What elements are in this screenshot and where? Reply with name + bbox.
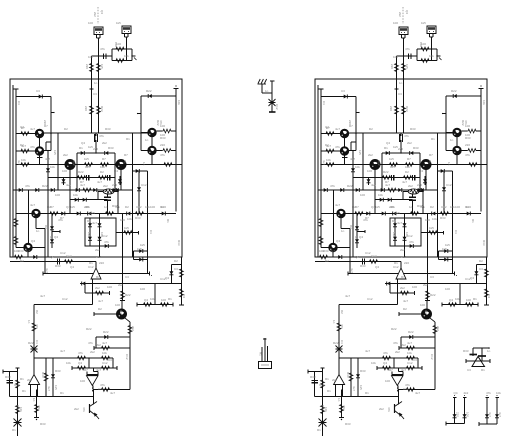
svg-text:220: 220 — [93, 147, 98, 151]
svg-text:100: 100 — [107, 285, 112, 289]
svg-text:4u7: 4u7 — [17, 160, 21, 165]
svg-text:Q4: Q4 — [144, 298, 148, 302]
svg-text:C12: C12 — [66, 254, 72, 258]
svg-text:R7: R7 — [80, 180, 84, 184]
svg-text:Q4: Q4 — [165, 276, 169, 280]
svg-text:100: 100 — [55, 193, 60, 197]
svg-text:4u7: 4u7 — [30, 203, 35, 207]
svg-text:Q4: Q4 — [66, 205, 70, 209]
svg-text:2k2: 2k2 — [102, 141, 107, 145]
svg-text:4u7: 4u7 — [45, 157, 50, 161]
svg-text:D2: D2 — [87, 219, 91, 223]
svg-text:1k5: 1k5 — [140, 243, 145, 247]
svg-text:C12: C12 — [72, 160, 76, 166]
svg-text:C12: C12 — [62, 297, 68, 301]
svg-text:1n: 1n — [27, 320, 31, 324]
svg-text:4u7: 4u7 — [97, 180, 102, 184]
svg-text:R33: R33 — [177, 240, 181, 246]
svg-text:2k2: 2k2 — [63, 153, 68, 157]
svg-text:10k: 10k — [73, 193, 78, 197]
svg-text:47k: 47k — [78, 351, 83, 355]
svg-text:100: 100 — [88, 55, 93, 59]
svg-text:47k: 47k — [160, 153, 165, 157]
svg-text:47k: 47k — [104, 240, 109, 244]
svg-text:4u7: 4u7 — [96, 368, 101, 372]
svg-text:R1: R1 — [166, 219, 170, 223]
svg-text:C3: C3 — [93, 92, 97, 96]
svg-text:C3: C3 — [174, 267, 178, 271]
svg-text:Q4: Q4 — [81, 141, 85, 145]
svg-text:C12: C12 — [275, 104, 279, 110]
svg-text:2k2: 2k2 — [118, 283, 123, 287]
svg-text:R22: R22 — [86, 327, 92, 331]
svg-text:C12: C12 — [136, 205, 142, 209]
svg-text:10k: 10k — [150, 297, 155, 301]
svg-text:1n: 1n — [142, 162, 146, 166]
svg-text:R33: R33 — [463, 349, 469, 353]
svg-text:10k: 10k — [102, 351, 107, 355]
svg-text:R1: R1 — [160, 205, 164, 209]
svg-text:Q4: Q4 — [100, 10, 104, 14]
svg-text:100R33: 100R33 — [160, 133, 166, 140]
svg-text:R33: R33 — [40, 422, 46, 426]
svg-text:Q4: Q4 — [78, 361, 82, 365]
svg-text:C12: C12 — [98, 387, 104, 391]
svg-text:R22: R22 — [42, 184, 48, 188]
svg-text:47k: 47k — [30, 145, 35, 149]
svg-text:220: 220 — [84, 205, 89, 209]
svg-text:C12: C12 — [102, 361, 108, 365]
svg-text:10k: 10k — [177, 100, 181, 105]
svg-text:47k: 47k — [486, 391, 491, 395]
svg-text:R7: R7 — [102, 157, 106, 161]
svg-text:1n: 1n — [32, 398, 36, 402]
svg-text:4u7: 4u7 — [498, 412, 502, 417]
svg-text:R22: R22 — [100, 106, 104, 112]
svg-text:R22: R22 — [28, 341, 34, 345]
svg-text:R33: R33 — [108, 146, 114, 150]
svg-text:4u7: 4u7 — [66, 183, 71, 187]
svg-text:Q4: Q4 — [20, 125, 24, 129]
svg-text:R1: R1 — [12, 428, 16, 432]
svg-text:1k5: 1k5 — [100, 64, 104, 69]
svg-text:47k: 47k — [58, 218, 63, 222]
svg-text:R7: R7 — [84, 368, 88, 372]
svg-text:Q4: Q4 — [70, 265, 74, 269]
svg-text:R33: R33 — [55, 264, 61, 268]
svg-text:10k: 10k — [66, 361, 71, 365]
svg-text:220: 220 — [43, 120, 47, 125]
svg-text:2k2: 2k2 — [131, 326, 135, 331]
svg-text:Q4: Q4 — [114, 169, 118, 173]
svg-text:4u7: 4u7 — [30, 127, 35, 131]
svg-text:R33: R33 — [5, 375, 11, 379]
svg-text:D2: D2 — [20, 143, 24, 147]
svg-text:Q4: Q4 — [182, 294, 186, 298]
svg-text:C12: C12 — [16, 405, 20, 411]
svg-text:10k: 10k — [124, 54, 129, 58]
svg-text:47k: 47k — [35, 324, 39, 329]
svg-text:100: 100 — [150, 205, 155, 209]
svg-text:220: 220 — [456, 412, 460, 417]
svg-text:1n: 1n — [123, 160, 127, 164]
svg-text:220: 220 — [112, 183, 117, 187]
svg-text:Q4: Q4 — [54, 235, 58, 239]
svg-text:10k: 10k — [100, 232, 104, 237]
svg-text:1k5: 1k5 — [116, 21, 121, 25]
svg-text:R1: R1 — [60, 391, 64, 395]
svg-text:100: 100 — [116, 42, 121, 46]
svg-text:1k5: 1k5 — [84, 157, 89, 161]
svg-text:100: 100 — [160, 124, 165, 128]
svg-text:1n: 1n — [36, 229, 40, 233]
svg-text:1n: 1n — [104, 205, 108, 209]
svg-text:1k5: 1k5 — [137, 247, 142, 251]
svg-text:1n: 1n — [94, 81, 98, 85]
svg-text:4u7: 4u7 — [488, 412, 492, 417]
svg-text:Q4: Q4 — [50, 255, 54, 259]
svg-text:10k: 10k — [496, 391, 501, 395]
svg-text:4u7: 4u7 — [25, 249, 30, 253]
svg-text:4u7: 4u7 — [45, 268, 49, 273]
svg-text:1n: 1n — [145, 138, 149, 142]
svg-text:2k2: 2k2 — [464, 391, 469, 395]
svg-text:D2: D2 — [100, 170, 104, 174]
svg-text:220: 220 — [85, 64, 89, 69]
svg-text:2k2: 2k2 — [95, 286, 100, 290]
svg-text:2k2: 2k2 — [93, 12, 97, 17]
svg-text:4u7: 4u7 — [92, 221, 97, 225]
svg-text:R22: R22 — [78, 170, 84, 174]
svg-text:D2: D2 — [125, 205, 129, 209]
svg-text:2k2: 2k2 — [27, 378, 32, 382]
svg-text:2k2: 2k2 — [103, 184, 108, 188]
svg-text:1k5: 1k5 — [54, 385, 58, 390]
svg-text:R1: R1 — [49, 236, 53, 240]
svg-text:220: 220 — [84, 106, 88, 111]
svg-text:D2: D2 — [20, 259, 24, 263]
svg-text:47k: 47k — [88, 341, 93, 345]
svg-text:10k: 10k — [100, 165, 105, 169]
svg-text:D2: D2 — [98, 307, 102, 311]
svg-text:C12: C12 — [141, 183, 147, 187]
svg-text:R33: R33 — [105, 127, 111, 131]
svg-text:C3: C3 — [467, 368, 471, 372]
svg-text:R22: R22 — [146, 89, 152, 93]
svg-text:2k2: 2k2 — [96, 343, 101, 347]
svg-text:4u7: 4u7 — [96, 255, 101, 259]
svg-text:100: 100 — [120, 218, 125, 222]
svg-text:100: 100 — [115, 303, 120, 307]
svg-text:Q4: Q4 — [454, 391, 458, 395]
svg-text:1k5: 1k5 — [53, 150, 57, 155]
svg-text:2k2: 2k2 — [90, 350, 95, 354]
svg-text:4u7: 4u7 — [40, 294, 45, 298]
svg-text:4u7: 4u7 — [98, 299, 103, 303]
svg-text:47k: 47k — [115, 205, 120, 209]
svg-text:C3: C3 — [36, 89, 40, 93]
svg-text:R1: R1 — [168, 297, 172, 301]
svg-text:4u7: 4u7 — [110, 391, 115, 395]
svg-text:1k5: 1k5 — [124, 226, 129, 230]
svg-text:10k: 10k — [50, 165, 55, 169]
svg-text:C12: C12 — [125, 354, 129, 360]
svg-text:R22: R22 — [125, 293, 131, 297]
svg-text:D2: D2 — [174, 259, 178, 263]
svg-text:47k: 47k — [99, 134, 104, 138]
svg-text:4u7: 4u7 — [47, 386, 51, 391]
svg-text:D2: D2 — [47, 205, 51, 209]
svg-text:C3: C3 — [149, 230, 153, 234]
svg-text:2k2: 2k2 — [74, 407, 79, 411]
svg-text:100: 100 — [88, 21, 93, 25]
svg-text:4u7: 4u7 — [60, 349, 65, 353]
svg-text:R1: R1 — [22, 389, 26, 393]
svg-text:220: 220 — [160, 143, 165, 147]
svg-text:2k2: 2k2 — [87, 232, 91, 237]
svg-text:1n: 1n — [265, 89, 269, 93]
svg-text:47k: 47k — [37, 405, 41, 410]
svg-text:C12: C12 — [60, 251, 66, 255]
svg-text:R33: R33 — [135, 216, 141, 220]
svg-text:R33: R33 — [18, 249, 24, 253]
svg-text:R1: R1 — [481, 368, 485, 372]
svg-text:10k: 10k — [127, 217, 132, 221]
svg-text:47k: 47k — [100, 47, 105, 51]
svg-text:220: 220 — [99, 261, 104, 265]
svg-text:C12: C12 — [160, 277, 166, 281]
svg-text:R22: R22 — [103, 330, 109, 334]
svg-text:R33: R33 — [41, 372, 45, 378]
svg-text:1k5: 1k5 — [90, 211, 95, 215]
svg-text:C3: C3 — [17, 101, 21, 105]
svg-text:R1: R1 — [126, 137, 130, 141]
svg-text:R1: R1 — [79, 146, 83, 150]
svg-text:C12: C12 — [88, 265, 94, 269]
svg-text:100: 100 — [140, 287, 145, 291]
svg-text:100: 100 — [161, 298, 166, 302]
svg-text:47k: 47k — [25, 184, 30, 188]
svg-text:R7: R7 — [96, 275, 100, 279]
svg-text:10k: 10k — [14, 249, 19, 253]
svg-text:100: 100 — [62, 169, 67, 173]
svg-text:C3: C3 — [108, 358, 112, 362]
svg-text:R1: R1 — [20, 377, 24, 381]
svg-text:Q4: Q4 — [31, 239, 35, 243]
svg-text:D2: D2 — [35, 310, 39, 314]
svg-text:C3: C3 — [125, 275, 129, 279]
svg-text:D2: D2 — [119, 310, 123, 314]
svg-text:10k: 10k — [145, 205, 150, 209]
svg-text:D2: D2 — [64, 127, 68, 131]
svg-text:100: 100 — [80, 379, 85, 383]
svg-text:R33: R33 — [55, 369, 61, 373]
svg-text:1k5: 1k5 — [85, 165, 90, 169]
svg-text:R7: R7 — [124, 153, 128, 157]
svg-text:C3: C3 — [35, 340, 39, 344]
svg-text:100: 100 — [466, 412, 470, 417]
svg-text:C12: C12 — [14, 383, 20, 387]
svg-text:2k2: 2k2 — [95, 248, 100, 252]
svg-text:1n: 1n — [487, 349, 491, 353]
svg-text:1k5: 1k5 — [70, 205, 75, 209]
svg-text:47k: 47k — [82, 407, 86, 412]
svg-text:4u7: 4u7 — [102, 341, 107, 345]
svg-text:R1: R1 — [259, 352, 263, 356]
